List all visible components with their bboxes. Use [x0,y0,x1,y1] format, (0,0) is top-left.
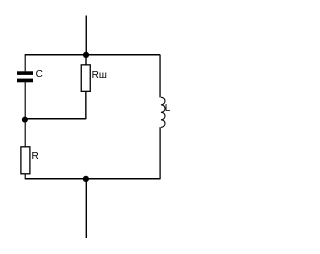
wire top feed stub [85,16,87,55]
wire bottom output stub [85,179,87,238]
node junction dot left [22,117,28,123]
wire middle branch upper (top node to Rsh) [85,55,87,65]
svg-text:L: L [165,103,171,114]
svg-text:Rш: Rш [92,70,107,81]
wire right branch lower (inductor to bottom bus) [159,127,161,179]
svg-text:R: R [32,151,39,162]
inductor L [161,97,171,127]
wire middle branch lower (Rsh to mid horizontal) [85,91,87,119]
wire right branch upper (top bus to inductor) [159,55,161,98]
svg-text:C: C [36,69,43,80]
resistor Rsh (shunt) [81,65,107,92]
wire top horizontal bus [25,54,160,56]
resistor R [21,147,39,174]
wire middle horizontal (to left node) [25,118,86,120]
wire bottom horizontal bus [25,178,161,180]
node junction dot bottom [83,176,89,182]
capacitor C [17,69,43,82]
node junction dot top [83,52,89,58]
wire left branch middle (capacitor to resistor R) [24,82,26,147]
wire left branch lower (resistor R to bottom bus) [24,174,26,180]
wire left branch upper (top bus to capacitor) [24,54,26,71]
